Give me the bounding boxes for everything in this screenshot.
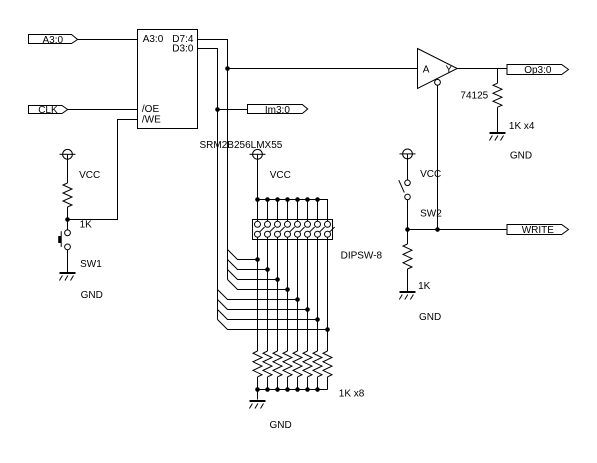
wire VCC rail above DIPSW — [258, 200, 328, 222]
wire D1 branch to col7 — [218, 310, 318, 320]
svg-text:GND: GND — [81, 290, 103, 301]
buffer U2 74125 — [418, 49, 489, 102]
svg-text:VCC: VCC — [79, 170, 100, 181]
wire D6 branch to col2 — [228, 260, 268, 270]
svg-text:GND: GND — [270, 420, 292, 431]
svg-text:GND: GND — [419, 312, 441, 323]
svg-text:/WE: /WE — [142, 115, 161, 126]
ground (output pull-down) — [489, 132, 532, 161]
resistor 1K (SW2 pull-down) — [403, 230, 431, 293]
svg-text:1K: 1K — [418, 281, 431, 292]
wire enable to WRITE net — [437, 85, 439, 229]
svg-text:D3:0: D3:0 — [172, 43, 194, 54]
net tag Op3:0 — [507, 65, 569, 76]
enable bubble — [435, 79, 441, 85]
wire D7:4 vertical bus — [198, 40, 228, 280]
node ground rail junctions — [255, 387, 320, 392]
wire D7 bus branch to DIPSW col1 — [228, 250, 258, 260]
svg-text:74125: 74125 — [460, 90, 488, 101]
wire D0 branch to col8 — [218, 320, 328, 330]
node D3 branch — [215, 107, 220, 112]
svg-text:1K x4: 1K x4 — [509, 121, 535, 132]
ground (SW1) — [59, 272, 102, 301]
IC U1 SRM2B256LMX55 body — [138, 30, 198, 129]
svg-text:A3:0: A3:0 — [143, 34, 164, 45]
svg-text:A3:0: A3:0 — [43, 35, 64, 46]
svg-text:1K x8: 1K x8 — [339, 389, 365, 400]
svg-text:Op3:0: Op3:0 — [524, 65, 552, 76]
node enable wire junction — [435, 227, 440, 232]
svg-text:CLK: CLK — [38, 105, 58, 116]
node data branch junctions — [255, 257, 330, 332]
VCC symbol (SW1 branch) — [60, 149, 101, 183]
svg-text:SW2: SW2 — [420, 209, 442, 220]
switch S1 DIPSW-8 poles — [255, 221, 335, 237]
wire /WE to SW1 node — [68, 120, 138, 220]
wire SW2 node to WRITE tag — [408, 229, 508, 231]
wire ground rail — [258, 389, 328, 391]
VCC symbol (SW2 branch) — [400, 149, 442, 180]
svg-text:Im3:0: Im3:0 — [265, 105, 290, 116]
node VCC rail junctions — [255, 197, 320, 202]
net tag CLK — [29, 105, 68, 116]
svg-text:VCC: VCC — [420, 169, 441, 180]
wire D3 branch to col5 — [218, 290, 298, 300]
wire buffer output — [457, 68, 507, 70]
wire A3:0 tag to IC — [78, 39, 138, 41]
resistor array 1K x8 — [253, 351, 365, 400]
svg-text:SRM2B256LMX55: SRM2B256LMX55 — [200, 140, 283, 151]
node D7 branch — [225, 66, 230, 71]
wire DIPSW top pin drops — [258, 200, 318, 222]
svg-text:WRITE: WRITE — [522, 225, 555, 236]
net tag WRITE — [507, 225, 569, 237]
svg-text:A: A — [423, 64, 430, 75]
switch S1 DIPSW-8 body — [253, 220, 383, 262]
svg-text:VCC: VCC — [270, 170, 291, 181]
svg-text:GND: GND — [510, 150, 532, 161]
ground (SW2) — [399, 291, 441, 323]
VCC symbol (DIPSW branch) — [250, 149, 291, 199]
switch SW1 (pushbutton) — [58, 220, 102, 273]
wire CLK tag to /OE — [68, 109, 138, 111]
svg-text:SW1: SW1 — [80, 259, 102, 270]
wire D5 branch to col3 — [228, 270, 278, 280]
net tag Im3:0 — [248, 105, 308, 116]
wire D4 branch to col4 — [228, 280, 288, 290]
wire D7:4 to buffer input — [228, 68, 418, 70]
wire D3:0 vertical bus — [198, 49, 218, 320]
resistor 1K x4 (output pull-down) — [493, 69, 535, 133]
node SW1/R1//WE junction — [65, 217, 70, 222]
svg-text:1K: 1K — [80, 220, 93, 231]
net tag A3:0 — [29, 35, 78, 46]
resistor R1 1K (SW1 pull-up) — [63, 183, 92, 231]
wire DIPSW bottom pin drops to resistors — [258, 237, 328, 351]
ground (resistor array) — [249, 390, 291, 431]
svg-text:Y: Y — [446, 64, 453, 75]
svg-text:DIPSW-8: DIPSW-8 — [341, 251, 383, 262]
wire D3:0 to Im3:0 tag — [218, 109, 248, 111]
wire resistor bottoms to ground rail — [258, 377, 328, 390]
switch SW2 (toggle) — [399, 180, 442, 230]
wire D2 branch to col6 — [218, 300, 308, 310]
node SW2/R/WRITE junction — [405, 227, 410, 232]
